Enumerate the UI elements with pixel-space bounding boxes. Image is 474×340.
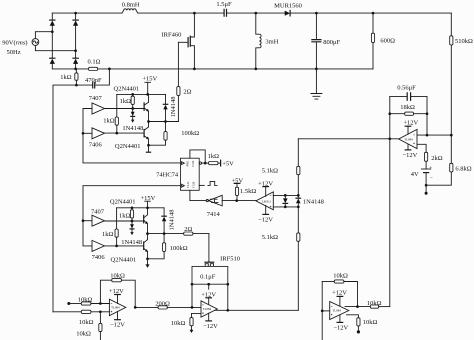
svg-text:1kΩ: 1kΩ — [103, 117, 115, 124]
resistor 1kohm pullup 7406 A — [103, 94, 118, 133]
wire final op-amp input vertical — [321, 282, 323, 340]
svg-text:800μF: 800μF — [323, 39, 340, 46]
svg-text:6.8kΩ: 6.8kΩ — [455, 166, 471, 173]
node emitter junction B — [146, 232, 149, 235]
svg-text:0.1μF: 0.1μF — [200, 274, 216, 281]
svg-text:+15V: +15V — [142, 76, 157, 83]
resistor 10kohm final plus to ground — [347, 315, 378, 334]
node 1k 7406 A junction — [115, 132, 118, 135]
ground channel A — [146, 145, 150, 152]
svg-text:50Hz: 50Hz — [7, 49, 21, 56]
node 7407 B input — [82, 219, 85, 222]
node clamp right bottom — [297, 206, 300, 209]
node sense tap — [75, 84, 78, 87]
node Qbar output junction — [204, 162, 207, 165]
svg-text:1kΩ: 1kΩ — [60, 74, 72, 81]
node diff noninverting input — [99, 310, 102, 313]
svg-text:1kΩ: 1kΩ — [120, 98, 132, 105]
svg-text:2kΩ: 2kΩ — [431, 155, 443, 162]
node 18k right — [426, 112, 429, 115]
ground channel B — [145, 259, 149, 268]
node final op-amp inverting input — [321, 310, 324, 313]
wire error amp output line — [298, 138, 398, 140]
capacitor 1.5uF — [216, 1, 232, 16]
wire 7407 B output to base node — [105, 220, 144, 222]
supply +12V output stage — [201, 284, 216, 304]
svg-text:Q2N4401: Q2N4401 — [110, 199, 136, 206]
op-amp U output stage TL084 — [201, 301, 217, 317]
node 800uF top junction — [315, 12, 318, 15]
resistor 1kohm Qbar pullup — [208, 153, 221, 165]
svg-text:3mH: 3mH — [265, 38, 278, 45]
svg-text:−12V: −12V — [203, 323, 218, 330]
resistor 10kohm final feedback — [322, 272, 357, 306]
node 3mH bottom junction — [254, 68, 257, 71]
node diff inverting input — [99, 302, 102, 305]
wire flip-flop D feedback loop — [190, 150, 205, 163]
node bridge bottom-right on rail — [74, 68, 77, 71]
node diff output junction — [134, 306, 137, 309]
diode bridge bottom-left — [50, 58, 55, 64]
node emitter ground A — [147, 144, 150, 147]
node base upper transistor B — [131, 220, 134, 223]
svg-text:10kΩ: 10kΩ — [110, 273, 125, 280]
svg-text:100kΩ: 100kΩ — [170, 245, 188, 252]
wire push-pull output line A — [149, 121, 179, 123]
wire 7407 B input — [83, 220, 92, 222]
node 7406 A input — [82, 132, 85, 135]
svg-text:+12V: +12V — [109, 288, 124, 295]
svg-text:7414: 7414 — [207, 211, 221, 218]
wire error amp noninverting input — [417, 144, 426, 152]
node clamp left bottom — [284, 206, 287, 209]
supply +15V channel B — [140, 195, 155, 208]
svg-text:2Ω: 2Ω — [184, 226, 192, 233]
svg-text:−12V: −12V — [258, 217, 273, 224]
wire IRF510 gate lead — [208, 234, 210, 262]
svg-text:100kΩ: 100kΩ — [181, 130, 199, 137]
svg-text:10kΩ: 10kΩ — [367, 300, 382, 307]
wire flip-flop Q pin stub — [199, 184, 204, 186]
resistor 10kohm diff upper input — [67, 296, 109, 305]
svg-text:74HC74: 74HC74 — [156, 171, 179, 178]
svg-text:TL084: TL084 — [111, 306, 120, 310]
resistor 510kohm — [450, 13, 473, 135]
supply -12V final op-amp — [333, 315, 348, 332]
svg-text:2Ω: 2Ω — [183, 89, 191, 96]
svg-text:Q2N4401: Q2N4401 — [115, 143, 141, 150]
supply -12V output stage — [203, 313, 218, 330]
svg-text:90V(rms): 90V(rms) — [2, 40, 27, 47]
svg-text:TL084: TL084 — [404, 137, 413, 141]
svg-text:−12V: −12V — [333, 325, 348, 332]
svg-text:CLR: CLR — [191, 181, 195, 188]
node feedback right leg — [426, 134, 429, 137]
svg-text:10kΩ: 10kΩ — [363, 319, 378, 326]
node +15V tick A — [146, 93, 149, 96]
op-amp U inverter TL084 — [330, 302, 349, 320]
diode 1N4148 clamp down — [283, 195, 288, 207]
svg-text:1.5μF: 1.5μF — [216, 1, 232, 8]
supply -12V comparator — [258, 205, 273, 223]
svg-text:5.1kΩ: 5.1kΩ — [262, 167, 278, 174]
inductor 0.8mH — [122, 1, 140, 13]
supply +12V error amp — [403, 119, 418, 134]
resistor 1kohm pullup base B — [119, 208, 134, 221]
svg-text:200Ω: 200Ω — [155, 300, 170, 307]
svg-text:600Ω: 600Ω — [380, 38, 395, 45]
node error amp output feedback junction — [388, 137, 391, 140]
transistor Q2N4401 lower A — [144, 122, 149, 146]
node final output junction — [356, 305, 359, 308]
op-amp U error amplifier TL084 — [399, 129, 417, 148]
diode bridge bottom-right — [73, 58, 78, 64]
svg-text:TL084: TL084 — [203, 307, 212, 311]
capacitor 800uF — [312, 13, 341, 69]
wire Qbar pin with bubble — [199, 162, 208, 164]
node box feedback to output — [226, 309, 229, 312]
node 1.5k pullup junction — [235, 199, 238, 202]
node sense right junction — [108, 68, 111, 71]
label clock pulse glyph — [208, 181, 217, 185]
svg-text:5.1kΩ: 5.1kΩ — [262, 234, 278, 241]
node 100k top A — [164, 120, 167, 123]
mosfet IRF460 — [162, 13, 195, 69]
node ac top to bridge — [51, 30, 54, 33]
svg-text:7406: 7406 — [92, 254, 106, 261]
svg-text:10kΩ: 10kΩ — [333, 272, 348, 279]
svg-text:IRF510: IRF510 — [220, 255, 240, 262]
wire channel A input vertical from flip-flop — [83, 109, 181, 163]
wire final input to op-amp — [322, 310, 330, 312]
wire top rail left segment — [52, 12, 122, 14]
node 3mH top junction — [254, 12, 257, 15]
svg-text:1kΩ: 1kΩ — [119, 213, 131, 220]
svg-text:10kΩ: 10kΩ — [171, 320, 186, 327]
wire error output long vertical — [389, 139, 391, 307]
node 1k pullup A top — [131, 93, 134, 96]
wire 7406 B output to lower base — [105, 245, 144, 247]
wire feedback left vertical — [389, 97, 391, 139]
wire bridge right leg — [75, 13, 77, 69]
svg-text:CLR: CLR — [191, 160, 195, 167]
svg-text:0.56μF: 0.56μF — [397, 85, 416, 92]
wire error amp inverting input line — [417, 134, 451, 136]
svg-text:1N4148: 1N4148 — [168, 210, 175, 231]
wire channel B input vertical from flip-flop — [83, 186, 181, 246]
diode 1N4148 base clamp B — [121, 221, 142, 246]
svg-text:7407: 7407 — [89, 95, 103, 102]
wire flip-flop CLK pin — [189, 190, 191, 200]
buffer 7406 channel B — [92, 240, 106, 261]
wire 7414 output to CLK — [190, 200, 206, 202]
node bridge top junction — [74, 12, 77, 15]
resistor 1.5kohm pullup — [235, 187, 256, 200]
wire +15V node line channel B — [117, 207, 164, 209]
svg-text:PRE: PRE — [186, 161, 190, 167]
svg-text:4V: 4V — [411, 171, 419, 178]
supply +15V channel A — [142, 76, 157, 95]
node 600ohm top junction — [372, 12, 375, 15]
svg-text:IRF460: IRF460 — [162, 32, 182, 39]
capacitor 0.1uF source loop box — [192, 266, 228, 284]
svg-text:+12V: +12V — [332, 290, 347, 297]
svg-text:7406: 7406 — [89, 142, 103, 149]
diode MUR1560 — [274, 3, 302, 16]
wire ac source bottom lead — [35, 45, 75, 50]
resistor 100kohm A — [149, 122, 200, 146]
buffer 7406 channel A — [89, 128, 105, 149]
svg-text:10kΩ: 10kΩ — [79, 319, 94, 326]
wire bottom dc rail — [52, 68, 373, 70]
resistor 5.1kohm upper — [262, 139, 300, 196]
svg-text:7407: 7407 — [91, 208, 105, 215]
svg-text:+: + — [429, 165, 432, 171]
buffer 7407 channel B — [91, 208, 105, 226]
svg-text:1N4148: 1N4148 — [121, 239, 142, 246]
svg-text:510kΩ: 510kΩ — [455, 38, 473, 45]
svg-text:1kΩ: 1kΩ — [102, 231, 114, 238]
svg-text:LM311: LM311 — [262, 200, 272, 204]
diode 1N4148 flyback B — [162, 208, 175, 234]
wire box right side to output — [227, 284, 229, 310]
wire 7406 A output to lower base — [105, 132, 145, 134]
resistor 100kohm B — [148, 234, 188, 259]
svg-text:1N4148: 1N4148 — [303, 198, 324, 205]
node battery bottom — [425, 184, 428, 187]
op-amp U current sense diff amp TL084 — [109, 299, 125, 315]
supply +5V comparator pullup — [231, 177, 243, 187]
wire ac source top lead — [35, 32, 52, 39]
svg-text:1N4148: 1N4148 — [122, 125, 143, 132]
resistor 1kohm pullup base A — [120, 94, 135, 108]
wire IRF460 gate drive vertical — [177, 42, 179, 86]
node box bottom center — [207, 283, 210, 286]
resistor 6.8kohm — [450, 135, 472, 173]
battery 4V reference — [411, 165, 433, 185]
resistor 5.1kohm lower — [262, 207, 300, 310]
wire bridge left leg — [51, 13, 53, 69]
resistor 1kohm pullup 7406 B — [102, 208, 118, 246]
diode bridge top-right — [73, 20, 78, 26]
svg-text:0.1Ω: 0.1Ω — [88, 59, 101, 66]
wire comparator plus input line — [273, 194, 298, 196]
node box bottom right — [226, 283, 229, 286]
resistor 10kohm final output — [367, 300, 390, 308]
supply +12V diff amp — [109, 288, 124, 304]
svg-text:+5V: +5V — [222, 161, 234, 168]
supply -12V diff amp — [110, 311, 125, 328]
diode 1N4148 flyback A — [163, 94, 177, 121]
wire box left side to inverting input — [191, 284, 193, 307]
node base upper transistor A — [131, 107, 134, 110]
resistor 2kohm reference — [425, 152, 443, 169]
wire +15V node line channel A — [117, 93, 166, 95]
svg-text:10kΩ: 10kΩ — [78, 296, 93, 303]
svg-text:MUR1560: MUR1560 — [274, 3, 302, 10]
svg-text:1kΩ: 1kΩ — [208, 153, 220, 160]
ground main — [311, 69, 322, 99]
svg-text:CLK: CLK — [186, 181, 190, 188]
node 1k pullup B top — [131, 206, 134, 209]
svg-text:−12V: −12V — [110, 322, 125, 329]
node 800uF bottom junction — [315, 68, 318, 71]
wire battery stub terminal — [425, 185, 428, 195]
resistor 2ohm gate A — [166, 87, 192, 122]
node clamp left top — [284, 194, 287, 197]
resistor 2ohm gate B — [184, 226, 209, 235]
svg-text:−: − — [430, 175, 433, 181]
node 100k top B — [163, 232, 166, 235]
svg-text:10kΩ: 10kΩ — [76, 331, 91, 338]
node box bottom left — [191, 283, 194, 286]
wire top rail 1.5uF to MUR1560 — [227, 12, 285, 14]
svg-text:+12V: +12V — [403, 119, 418, 126]
inverter 7414 schmitt — [206, 195, 222, 218]
resistor 10kohm diff feedback — [100, 273, 135, 308]
resistor 10kohm diff plus to edge — [76, 312, 102, 340]
svg-text:18kΩ: 18kΩ — [400, 104, 415, 111]
transistor Q2N4401 lower B — [144, 234, 148, 259]
node IRF460 drain junction — [193, 12, 196, 15]
svg-text:0.8mH: 0.8mH — [122, 1, 140, 8]
resistor 600ohm — [371, 13, 395, 69]
node 18k left — [388, 112, 391, 115]
node 510k 6.8k junction — [450, 134, 453, 137]
node ac bottom to bridge — [74, 49, 77, 52]
node 1k 7406 B junction — [115, 245, 118, 248]
flip-flop U 74HC74 — [156, 158, 199, 190]
resistor 0.1ohm current sense — [88, 59, 101, 71]
wire push-pull output line B — [148, 233, 184, 235]
node emitter ground B — [146, 257, 149, 260]
svg-text:470pF: 470pF — [85, 77, 102, 84]
ac source 90V(rms) 50Hz — [2, 39, 38, 57]
supply -12V error amp — [402, 144, 417, 159]
resistor 10kohm diff lower input — [53, 310, 109, 326]
wire comparator minus input line — [273, 206, 298, 208]
capacitor 470pF — [76, 69, 109, 88]
node +15V tick B — [146, 206, 149, 209]
wire sense tap to left vertical — [53, 85, 76, 312]
diode bridge top-left — [50, 20, 55, 26]
wire top rail to 1.5uF — [138, 12, 224, 14]
resistor 200ohm input — [135, 300, 201, 309]
wire 7406 A input — [83, 132, 92, 134]
node output stage inverting input — [191, 306, 194, 309]
svg-text:1N4148: 1N4148 — [170, 97, 177, 118]
buffer 7407 channel A — [89, 95, 105, 114]
diode 1N4148 clamp up — [296, 195, 324, 207]
supply +12V final op-amp — [332, 290, 347, 306]
resistor 18kohm feedback — [390, 104, 427, 115]
transistor Q2N4401 upper B — [144, 208, 148, 234]
node clamp right top — [297, 194, 300, 197]
supply +5V flip-flop — [221, 160, 235, 167]
comparator U LM311 — [256, 192, 273, 210]
wire 7407 A output to base node — [105, 108, 145, 110]
wire 7414 input from comparator — [222, 200, 256, 202]
svg-text:Q2N4401: Q2N4401 — [111, 257, 137, 264]
node IRF460 source on rail — [193, 68, 196, 71]
mosfet IRF510 — [205, 255, 240, 266]
wire final output line — [345, 306, 370, 308]
diode 1N4148 base clamp A — [122, 109, 143, 132]
resistor 10kohm to ground output stage — [171, 313, 201, 333]
wire feedback right vertical — [426, 97, 428, 136]
supply +12V comparator — [258, 181, 273, 197]
svg-text:Q2N4401: Q2N4401 — [114, 86, 140, 93]
svg-text:−12V: −12V — [402, 152, 417, 159]
svg-text:TL084: TL084 — [332, 309, 341, 313]
transistor Q2N4401 upper A — [144, 94, 149, 121]
wire top rail right segment — [291, 12, 452, 14]
wire battery to 6.8k bottom — [426, 172, 451, 185]
inductor 3mH — [256, 13, 279, 69]
wire output stage output line — [215, 309, 298, 311]
svg-text:1.5kΩ: 1.5kΩ — [240, 188, 256, 195]
node emitter junction A — [147, 120, 150, 123]
capacitor 0.56uF feedback — [390, 85, 427, 101]
resistor 1kohm sense filter — [60, 69, 78, 85]
